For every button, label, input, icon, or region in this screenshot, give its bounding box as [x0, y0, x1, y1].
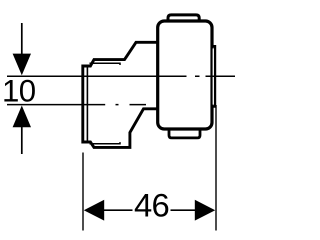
right tab	[212, 46, 216, 106]
top cap	[168, 15, 199, 22]
dim46 left extension line	[82, 153, 84, 231]
pipe bottom chamfer edge line	[90, 142, 121, 144]
dim10 upper stem	[21, 23, 23, 54]
dim46 line left segment	[100, 209, 133, 211]
dim46 line right segment	[171, 209, 199, 211]
dim46 right arrow	[195, 200, 215, 221]
dim10 lower stem	[21, 127, 23, 154]
dim46 left arrow	[84, 200, 104, 221]
dim10 down arrow	[13, 54, 31, 76]
bottom cap	[169, 128, 200, 138]
body axis centerline	[7, 75, 235, 77]
valve body	[158, 21, 212, 129]
pipe axis centerline	[7, 104, 146, 106]
tab gap separator	[212, 48, 214, 104]
svg-text:46: 46	[134, 186, 169, 223]
pipe top chamfer edge line	[90, 63, 121, 65]
pipe end inner vertical	[86, 67, 88, 142]
pipe and middle section outline	[83, 42, 158, 147]
svg-text:10: 10	[2, 73, 36, 108]
dim46 right extension line	[215, 105, 217, 231]
dim10 up arrow	[13, 106, 31, 128]
